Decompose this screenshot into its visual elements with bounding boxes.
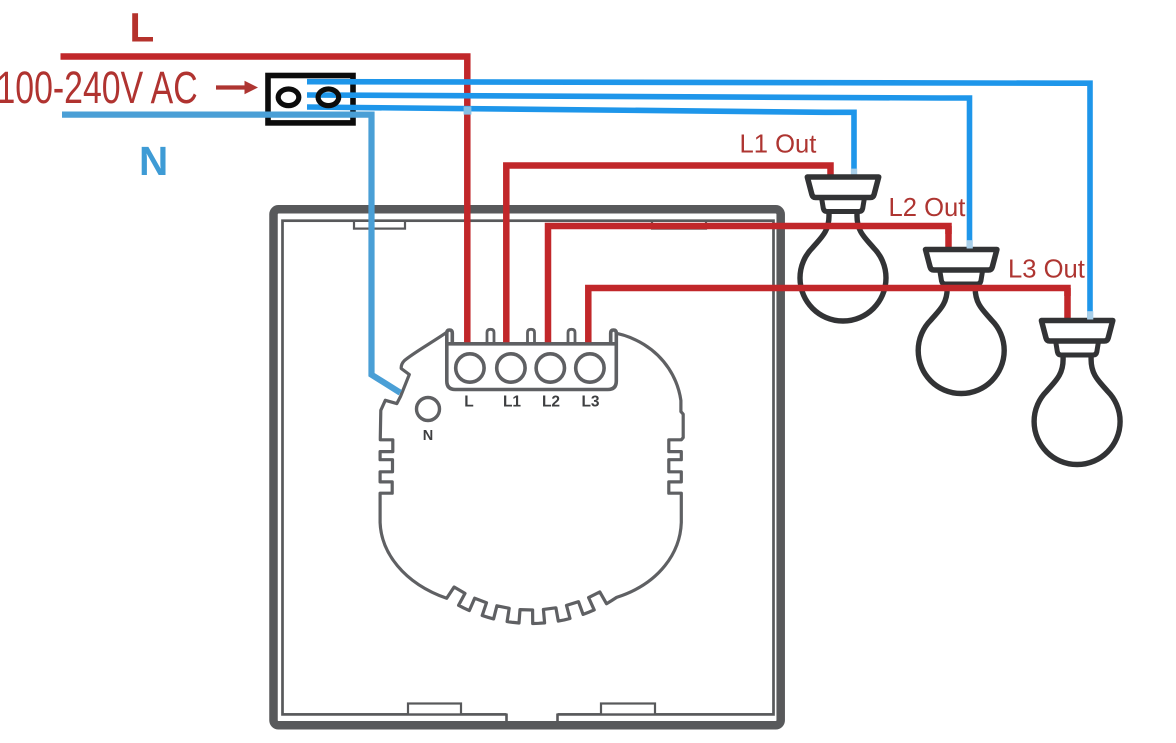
wire: L3 out run from terminal L3 bbox=[588, 288, 1067, 342]
svg-text:L2 Out: L2 Out bbox=[889, 194, 966, 222]
switch plate outer frame bbox=[274, 209, 781, 725]
plate bottom mounting tab right bbox=[601, 704, 655, 715]
svg-text:L1 Out: L1 Out bbox=[740, 131, 817, 159]
lamp 1 bbox=[800, 208, 886, 321]
switch plate inner frame bbox=[283, 221, 774, 715]
wire: L3 out drop into lamp 3 bbox=[1064, 288, 1071, 321]
terminal block tab 3 bbox=[568, 329, 575, 344]
svg-text:L1: L1 bbox=[503, 394, 521, 411]
arrow to connector bbox=[216, 85, 247, 89]
terminal block tab 2 bbox=[528, 329, 535, 344]
wire: live L from supply to terminal L bbox=[61, 57, 468, 343]
terminal block top bar bbox=[447, 342, 616, 346]
svg-text:L: L bbox=[130, 5, 155, 51]
connector hole 2 fill bbox=[318, 89, 339, 106]
terminal block body bbox=[448, 330, 617, 389]
plate bottom center cutout bbox=[507, 709, 558, 719]
terminal block tab 1 bbox=[487, 329, 494, 344]
connector hole 1 bbox=[278, 89, 299, 106]
wire: neutral supply to switch N bbox=[62, 115, 400, 393]
wire: neutral line 1 to lamp 3 bbox=[307, 82, 1090, 320]
wire: L2 out drop into lamp 2 bbox=[945, 226, 952, 250]
terminal screw L1 bbox=[497, 354, 525, 382]
supply connector box bbox=[268, 76, 353, 123]
terminal screw L2 bbox=[536, 354, 564, 382]
svg-text:L: L bbox=[464, 394, 473, 411]
wire: neutral line 2 to lamp 2 bbox=[307, 95, 970, 249]
plate top mounting tab right bbox=[652, 221, 706, 229]
junction marker on neutral line 3 bbox=[464, 106, 472, 114]
terminal screw L3 bbox=[576, 354, 604, 382]
light tip of neutral drop at lamp 1 bbox=[851, 169, 857, 177]
plate bottom mounting tab left bbox=[408, 704, 461, 715]
light tip of neutral drop at lamp 3 bbox=[1087, 311, 1093, 319]
wire: neutral line 3 to lamp 1 bbox=[307, 107, 854, 177]
connector hole 2 ring bbox=[318, 89, 339, 106]
svg-text:L2: L2 bbox=[542, 394, 560, 411]
svg-text:N: N bbox=[139, 138, 168, 184]
svg-text:100-240V AC: 100-240V AC bbox=[0, 63, 198, 113]
terminal screw L bbox=[456, 354, 484, 382]
wire: L2 out run from terminal L2 bbox=[548, 226, 949, 342]
plate top mounting tab left bbox=[354, 221, 405, 229]
svg-text:L3 Out: L3 Out bbox=[1008, 256, 1085, 284]
svg-text:L3: L3 bbox=[581, 394, 599, 411]
svg-text:N: N bbox=[423, 428, 433, 444]
N terminal circle bbox=[417, 398, 440, 421]
lamp 2 bbox=[918, 281, 1004, 394]
lamp 3 bbox=[1034, 352, 1120, 465]
round switch module body bbox=[380, 332, 683, 623]
wire: L1 out from terminal L1 to lamp 1 bbox=[506, 166, 830, 343]
light tip of neutral drop at lamp 2 bbox=[967, 240, 973, 248]
